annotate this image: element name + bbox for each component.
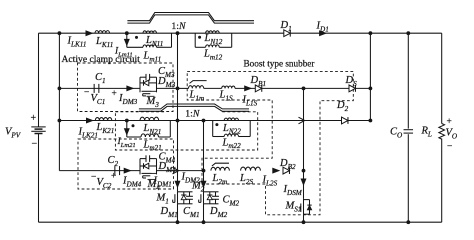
svg-text:Boost type snubber: Boost type snubber xyxy=(244,59,315,69)
svg-text:+: + xyxy=(31,113,37,124)
svg-text:1:N: 1:N xyxy=(171,21,186,32)
svg-text:+: + xyxy=(112,89,117,99)
svg-text:−: − xyxy=(84,88,89,98)
svg-text:−: − xyxy=(32,139,38,150)
svg-text:−: − xyxy=(447,142,452,152)
svg-text:1:N: 1:N xyxy=(185,108,200,119)
svg-text:Active clamp circuit: Active clamp circuit xyxy=(62,54,141,65)
svg-text:+: + xyxy=(111,172,116,182)
svg-text:+: + xyxy=(447,117,452,127)
